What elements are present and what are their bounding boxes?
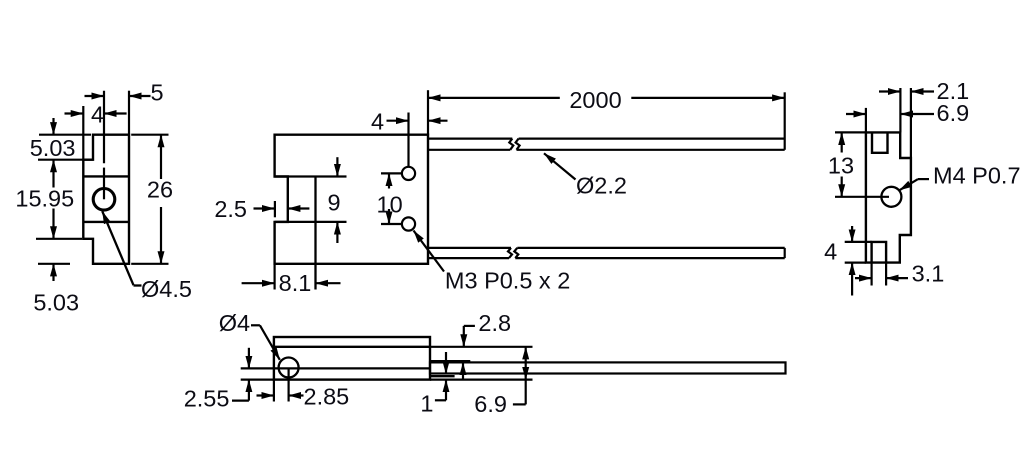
extension x=910.9 up — [910, 88, 912, 158]
tick hole lower centerline — [381, 223, 402, 225]
extension interior line 1 right — [430, 346, 533, 348]
extension line outer-left edge up — [82, 106, 84, 160]
extension notch top left — [845, 241, 872, 243]
svg-text:1: 1 — [420, 391, 433, 417]
cable end cap + extension 2000 right — [784, 92, 786, 150]
bottom view body outline — [274, 337, 430, 380]
dim 8.1 arrows — [242, 282, 275, 284]
dim 2.8 arrows — [463, 326, 465, 347]
interior vertical edge + extension — [314, 177, 316, 290]
dim 2.85 arrows — [257, 394, 274, 396]
dim 9 arrows — [336, 157, 338, 176]
top cable upper line — [428, 138, 512, 140]
svg-text:13: 13 — [828, 153, 854, 179]
dim 2.1 arrows — [879, 90, 900, 92]
hole M3 upper — [402, 167, 415, 180]
svg-text:6.9: 6.9 — [474, 391, 507, 417]
extension line step upper — [38, 159, 93, 161]
svg-text:5.03: 5.03 — [30, 135, 76, 161]
svg-text:3.1: 3.1 — [912, 261, 945, 287]
dim 4 front arrows — [387, 120, 409, 122]
svg-text:5.03: 5.03 — [33, 290, 79, 316]
extension line top edge left — [39, 134, 91, 136]
svg-text:2.5: 2.5 — [214, 196, 247, 222]
hole centerline — [103, 91, 105, 164]
svg-text:4: 4 — [824, 239, 837, 265]
dim 3.1 arrows — [855, 277, 872, 279]
left view outline — [83, 135, 129, 264]
hole M4 — [881, 187, 901, 207]
dim 2.5 arrows — [254, 207, 275, 209]
extension left edge down — [273, 380, 275, 402]
extension line top edge right — [131, 134, 168, 136]
svg-text:15.95: 15.95 — [15, 186, 74, 212]
hole M4 centerline extension — [835, 196, 889, 198]
extension top edge left — [835, 131, 866, 133]
svg-text:2.85: 2.85 — [304, 384, 350, 410]
extension body right edge up — [427, 90, 429, 135]
svg-text:2.8: 2.8 — [478, 310, 511, 336]
front view outline — [275, 135, 428, 264]
recess top edge + extension — [275, 175, 347, 177]
svg-text:4: 4 — [371, 109, 384, 135]
extension left edge up — [865, 108, 867, 132]
svg-text:8.1: 8.1 — [279, 270, 312, 296]
leader M3 — [414, 231, 445, 272]
dim 1 arrows — [445, 352, 447, 374]
svg-text:M3 P0.5 x 2: M3 P0.5 x 2 — [445, 268, 570, 294]
dim 5.03 bottom arrow — [52, 264, 54, 281]
bottom slot notch — [872, 242, 887, 263]
dim 10 arrows — [388, 173, 390, 188]
recess bottom edge + extension — [275, 221, 347, 223]
top slot notch — [872, 132, 888, 152]
svg-text:6.9: 6.9 — [937, 100, 970, 126]
extension line step lower — [36, 238, 82, 240]
hole O4 — [279, 358, 299, 378]
extension hole vertical for dim 4 — [407, 113, 409, 167]
dim 2000 line — [428, 97, 560, 99]
top cable lower line — [428, 149, 510, 151]
svg-text:Ø4: Ø4 — [219, 310, 250, 336]
bottom cable end cap — [784, 248, 786, 258]
svg-text:5: 5 — [150, 80, 163, 106]
right view outline — [866, 132, 911, 262]
hole O4 centerline down — [288, 368, 290, 402]
bottom cable lower line — [428, 257, 509, 259]
extension notch walls down — [870, 263, 872, 286]
dim 15.95 line — [52, 209, 54, 239]
bottom view interior line 1 — [274, 346, 430, 348]
tick 2.5 extension — [274, 201, 276, 217]
left view interior edge lower — [83, 221, 129, 223]
svg-text:2000: 2000 — [569, 87, 621, 113]
dim 13 line — [841, 132, 843, 152]
dim 2.55 arrows — [248, 348, 250, 369]
extension line bottom edge right — [131, 263, 168, 265]
leader M4 — [899, 179, 918, 190]
svg-text:9: 9 — [327, 190, 340, 216]
dim 4 right arrows — [851, 226, 853, 242]
bottom view interior line 2 + left extension — [241, 367, 430, 369]
left view interior edge upper — [83, 175, 129, 177]
bottom view cable outline — [430, 362, 786, 373]
dim 4 arrows — [65, 112, 84, 114]
top cable break zigzags — [509, 139, 513, 150]
dim 5 arrows — [85, 95, 105, 97]
extension tick cable top — [430, 360, 470, 362]
leader O4.5 — [102, 211, 133, 285]
leader O4 — [251, 324, 260, 326]
extension body left edge down — [274, 264, 276, 290]
extension line bottom edge left — [38, 263, 70, 265]
svg-text:26: 26 — [147, 177, 173, 203]
extension bottom edge left — [845, 262, 866, 264]
dim 26 line — [160, 135, 162, 179]
leader O2.2 — [544, 153, 576, 179]
hole M3 lower — [402, 217, 415, 230]
svg-text:Ø2.2: Ø2.2 — [576, 173, 627, 199]
tick hole upper centerline — [381, 172, 402, 174]
svg-text:2.55: 2.55 — [184, 386, 230, 412]
dim 5.03 top arrows — [52, 118, 54, 135]
svg-text:10: 10 — [377, 192, 403, 218]
extension bottom edge left — [241, 379, 274, 381]
dim 6.9 arrows — [846, 113, 866, 115]
extension x=900.5 up — [899, 88, 901, 132]
dim 6.9 bottom line — [525, 347, 527, 363]
extension tick cable bottom — [430, 375, 455, 377]
bottom cable upper line — [428, 247, 511, 249]
svg-text:Ø4.5: Ø4.5 — [141, 276, 192, 302]
extension line right edge up — [128, 91, 130, 135]
hole circle O4.5 — [93, 189, 115, 211]
bottom cable break zigzags — [508, 248, 512, 258]
svg-text:M4 P0.7: M4 P0.7 — [933, 163, 1021, 189]
svg-text:4: 4 — [91, 102, 104, 128]
extension bottom edge right — [430, 379, 533, 381]
